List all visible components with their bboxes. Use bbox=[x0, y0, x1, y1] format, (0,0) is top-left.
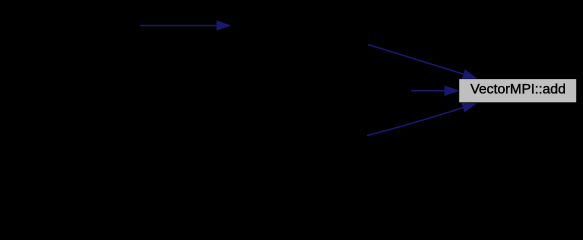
svg-text:VectorMPI::add: VectorMPI::add bbox=[470, 82, 566, 97]
